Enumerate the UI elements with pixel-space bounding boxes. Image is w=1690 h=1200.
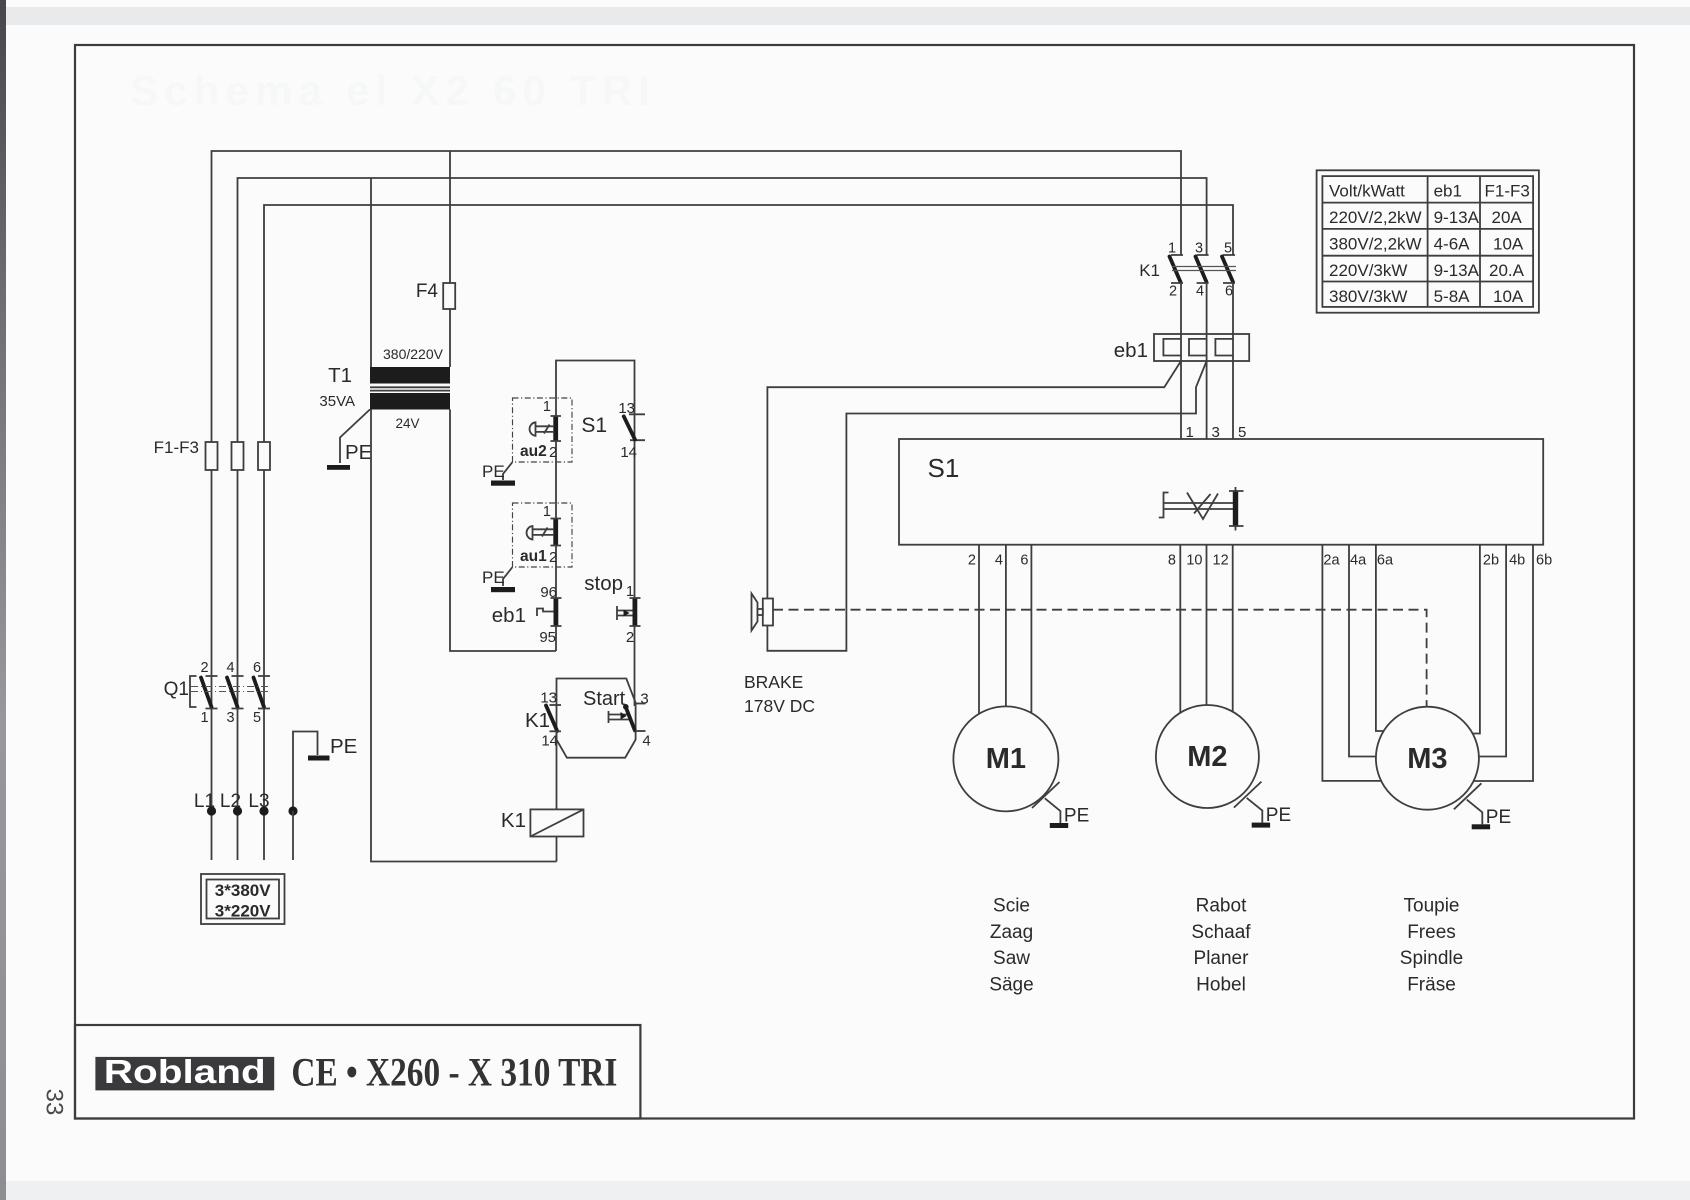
svg-text:F1-F3: F1-F3 [1485, 182, 1530, 201]
svg-text:2: 2 [968, 553, 976, 569]
svg-text:2b: 2b [1483, 553, 1499, 569]
svg-text:3*220V: 3*220V [215, 902, 271, 921]
svg-text:PE: PE [1486, 807, 1511, 828]
svg-text:178V DC: 178V DC [744, 696, 815, 716]
svg-text:2: 2 [549, 549, 557, 566]
svg-text:6b: 6b [1536, 553, 1552, 569]
svg-text:Saw: Saw [993, 948, 1030, 969]
svg-text:au1: au1 [520, 548, 547, 565]
svg-text:Scie: Scie [993, 896, 1030, 917]
svg-text:PE: PE [330, 735, 357, 758]
svg-text:4a: 4a [1350, 553, 1367, 569]
svg-text:F4: F4 [416, 281, 439, 302]
svg-text:95: 95 [539, 629, 556, 646]
svg-text:24V: 24V [395, 416, 419, 431]
svg-text:1: 1 [543, 399, 551, 415]
svg-text:Spindle: Spindle [1400, 948, 1463, 969]
svg-text:13: 13 [540, 690, 557, 707]
svg-text:Rabot: Rabot [1196, 896, 1247, 917]
svg-text:4: 4 [995, 553, 1003, 569]
svg-text:2: 2 [626, 629, 634, 646]
svg-text:Frees: Frees [1407, 922, 1456, 943]
svg-text:PE: PE [1064, 806, 1089, 827]
svg-text:10A: 10A [1493, 235, 1524, 254]
svg-text:20A: 20A [1492, 208, 1523, 227]
svg-text:Fräse: Fräse [1407, 974, 1456, 995]
svg-text:PE: PE [345, 441, 372, 464]
svg-text:4: 4 [1196, 284, 1204, 300]
svg-text:CE • X260 - X 310 TRI: CE • X260 - X 310 TRI [291, 1050, 617, 1095]
svg-text:3: 3 [640, 691, 648, 708]
svg-text:4b: 4b [1509, 553, 1525, 569]
svg-text:8: 8 [1168, 553, 1176, 569]
svg-text:eb1: eb1 [492, 604, 526, 627]
svg-text:33: 33 [41, 1089, 68, 1116]
svg-text:M2: M2 [1187, 741, 1227, 773]
svg-text:1: 1 [200, 710, 208, 726]
svg-text:35VA: 35VA [319, 393, 355, 410]
svg-text:PE: PE [1266, 805, 1291, 826]
svg-text:Volt/kWatt: Volt/kWatt [1329, 182, 1405, 201]
svg-text:10A: 10A [1493, 287, 1524, 306]
svg-text:4-6A: 4-6A [1434, 235, 1471, 254]
svg-text:14: 14 [620, 444, 637, 461]
svg-text:eb1: eb1 [1114, 339, 1148, 362]
svg-text:3*380V: 3*380V [215, 881, 271, 900]
svg-text:BRAKE: BRAKE [744, 672, 803, 692]
svg-text:2: 2 [549, 444, 557, 461]
svg-text:K1: K1 [525, 709, 550, 732]
svg-text:S1: S1 [581, 414, 607, 437]
svg-text:L3: L3 [248, 791, 269, 812]
svg-text:T1: T1 [328, 364, 352, 387]
svg-text:14: 14 [541, 733, 558, 750]
svg-text:PE: PE [482, 568, 505, 587]
svg-text:stop: stop [584, 572, 623, 595]
svg-text:220V/3kW: 220V/3kW [1329, 261, 1407, 280]
svg-text:2: 2 [200, 660, 208, 676]
svg-text:5-8A: 5-8A [1434, 287, 1471, 306]
svg-text:1: 1 [543, 504, 551, 520]
svg-text:PE: PE [482, 462, 505, 481]
svg-text:Schaaf: Schaaf [1191, 922, 1251, 943]
svg-text:9-13A: 9-13A [1434, 208, 1480, 227]
svg-text:220V/2,2kW: 220V/2,2kW [1329, 208, 1422, 227]
svg-text:6: 6 [1020, 553, 1028, 569]
svg-text:12: 12 [1213, 553, 1229, 569]
svg-text:Säge: Säge [989, 974, 1033, 995]
svg-text:au2: au2 [520, 443, 547, 460]
svg-text:6: 6 [253, 660, 261, 676]
svg-text:6a: 6a [1377, 553, 1394, 569]
svg-text:6: 6 [1225, 284, 1233, 300]
svg-text:S1: S1 [928, 453, 960, 483]
svg-text:20.A: 20.A [1489, 261, 1525, 280]
svg-text:K1: K1 [1139, 261, 1160, 280]
svg-text:K1: K1 [501, 809, 526, 832]
svg-text:5: 5 [253, 710, 261, 726]
svg-text:4: 4 [226, 660, 234, 676]
svg-text:4: 4 [642, 733, 650, 750]
svg-text:eb1: eb1 [1434, 182, 1462, 201]
svg-text:Planer: Planer [1194, 948, 1250, 969]
svg-text:9-13A: 9-13A [1434, 261, 1480, 280]
svg-text:10: 10 [1186, 553, 1202, 569]
svg-text:2: 2 [1169, 284, 1177, 300]
svg-text:Zaag: Zaag [990, 922, 1033, 943]
svg-text:F1-F3: F1-F3 [154, 438, 199, 457]
svg-text:Hobel: Hobel [1196, 974, 1246, 995]
svg-text:380V/3kW: 380V/3kW [1329, 287, 1407, 306]
svg-text:M1: M1 [986, 743, 1026, 775]
svg-text:Start: Start [583, 688, 626, 710]
svg-text:L1: L1 [194, 791, 215, 812]
svg-text:L2: L2 [220, 791, 241, 812]
svg-text:3: 3 [226, 710, 234, 726]
svg-text:Q1: Q1 [164, 679, 189, 700]
svg-text:380V/2,2kW: 380V/2,2kW [1329, 235, 1422, 254]
svg-text:380/220V: 380/220V [383, 346, 444, 362]
svg-text:Robland: Robland [104, 1053, 266, 1090]
svg-text:2a: 2a [1323, 553, 1340, 569]
svg-text:Toupie: Toupie [1404, 896, 1460, 917]
svg-text:M3: M3 [1407, 743, 1447, 775]
